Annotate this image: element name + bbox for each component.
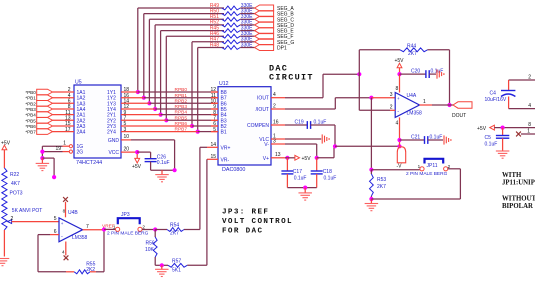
node *PB7 input tag: [25, 127, 74, 135]
capacitor C20 0.1uF: [400, 68, 444, 78]
svg-text:JP11:UNIPOLAR: JP11:UNIPOLAR: [502, 180, 535, 187]
svg-text:74HCT244: 74HCT244: [76, 160, 102, 166]
resistor R54 2K7: [167, 223, 184, 237]
svg-text:3: 3: [124, 127, 127, 133]
svg-text:*PB0: *PB0: [25, 90, 36, 95]
wire 1G 2G enable to ground: [40, 141, 69, 180]
wire pot wiper to U4B pin5: [11, 216, 60, 222]
svg-text:2: 2: [448, 164, 451, 169]
svg-text:330E: 330E: [241, 42, 253, 48]
svg-text:RPB1: RPB1: [175, 93, 188, 99]
svg-text:R56: R56: [146, 240, 155, 246]
wire RPB2 row: [121, 98, 218, 104]
svg-text:RPB4: RPB4: [175, 110, 188, 116]
svg-text:2: 2: [528, 74, 531, 80]
ground at C26: [155, 170, 169, 182]
svg-text:4: 4: [528, 103, 531, 109]
svg-text:1: 1: [63, 141, 66, 147]
svg-text:C5: C5: [485, 135, 492, 141]
ground at R53: [365, 199, 379, 211]
wire U4B feedback loop: [38, 235, 74, 272]
wire net RPB7 to R48: [196, 48, 224, 134]
svg-text:RPB5: RPB5: [175, 115, 188, 121]
svg-text:4K7: 4K7: [11, 181, 20, 187]
svg-text:+5V: +5V: [477, 126, 487, 132]
svg-text:1: 1: [418, 164, 421, 169]
svg-text:3: 3: [390, 92, 393, 98]
svg-text:VR+: VR+: [221, 145, 231, 151]
IC U12 DAC0800: [218, 81, 271, 173]
wire net RPB6 to R47: [190, 42, 224, 128]
wire net RPB3 to R52: [153, 25, 224, 111]
node SEG_F: [255, 33, 294, 40]
svg-text:LM358: LM358: [72, 235, 88, 241]
wire V+ net: [271, 152, 295, 160]
svg-text:WITHOUT JP: WITHOUT JP: [502, 196, 535, 203]
wire VREF to JP3 pin1: [104, 228, 116, 230]
U4B pin8 no-connect: [63, 197, 68, 217]
svg-text:+: +: [397, 96, 400, 101]
svg-text:VR-: VR-: [221, 157, 230, 163]
svg-text:JP3: REF: JP3: REF: [222, 209, 269, 217]
svg-text:1: 1: [527, 128, 530, 134]
U4B pin4 no-connect: [62, 242, 68, 261]
svg-text:DOUT: DOUT: [452, 113, 466, 119]
wire RPB1 row: [121, 93, 218, 99]
wire net RPB1 to R50: [142, 14, 224, 100]
svg-text:6: 6: [54, 229, 57, 235]
connector JP11 2 PIN MALE BERG: [406, 159, 451, 177]
wire U4B pin6 input: [38, 229, 59, 235]
ground at C17 C18: [298, 188, 312, 201]
ground at VLC: [322, 134, 329, 143]
resistor R48 330E: [210, 42, 255, 49]
svg-text:5K1: 5K1: [172, 267, 181, 273]
wire V- net: [271, 125, 402, 160]
node *PB0 input tag: [25, 87, 74, 95]
svg-text:R53: R53: [377, 177, 386, 183]
svg-text:R57: R57: [172, 258, 181, 264]
ground at U5 enables: [36, 158, 50, 171]
wire RPB4 row: [121, 110, 218, 116]
svg-text:8: 8: [528, 122, 531, 128]
svg-text:0.1uF: 0.1uF: [157, 160, 170, 166]
svg-text:RPB7: RPB7: [175, 127, 188, 133]
node SEG_B: [255, 11, 295, 18]
note WITH JP11 UNIPOLAR: [502, 172, 535, 210]
capacitor C17 0.1uF: [281, 158, 306, 188]
capacitor C19 0.1uF: [295, 119, 336, 128]
power +5V at U5 VCC: [132, 154, 142, 170]
svg-text:+5V: +5V: [302, 156, 312, 162]
node SEG_A: [255, 5, 295, 12]
U4A pin labels: [390, 86, 426, 126]
svg-text:4: 4: [396, 120, 399, 126]
svg-text:U4A: U4A: [407, 93, 417, 99]
ground at C5: [496, 151, 510, 158]
svg-text:RPB2: RPB2: [175, 98, 188, 104]
wire U4A pin2 input: [359, 109, 395, 111]
wire RPB5 row: [121, 115, 218, 121]
svg-text:2K7: 2K7: [377, 184, 386, 190]
wire RPB0 row: [121, 87, 218, 93]
svg-text:VOLT CONTROL: VOLT CONTROL: [222, 218, 293, 226]
wire VCC net U5: [121, 146, 151, 158]
capacitor C5 0.1uF: [485, 128, 510, 151]
capacitor C4 10uF/16V: [485, 80, 516, 109]
node *PB3 input tag: [25, 104, 74, 112]
svg-text:LM358: LM358: [407, 111, 423, 117]
svg-text:-: -: [61, 234, 63, 240]
svg-text:-: -: [397, 109, 399, 115]
wire VR- to R57: [187, 154, 218, 265]
svg-text:*PB3: *PB3: [25, 107, 36, 112]
svg-text:C21: C21: [411, 134, 420, 140]
node *PB4 input tag: [25, 110, 74, 118]
svg-text:DAC0800: DAC0800: [222, 167, 245, 173]
svg-text:V+: V+: [263, 156, 269, 162]
power +5V at U4A: [394, 58, 404, 74]
svg-text:RPB0: RPB0: [175, 87, 188, 93]
svg-text:13: 13: [275, 152, 281, 158]
svg-text:5K ANVI POT: 5K ANVI POT: [12, 208, 43, 214]
svg-text:2G: 2G: [77, 150, 84, 156]
wire U4A pin4 supply: [397, 117, 401, 146]
connector JP3 2 PIN MALE BERG: [107, 212, 149, 236]
svg-text:10uF/16V: 10uF/16V: [485, 97, 507, 103]
svg-text:CIRCUIT: CIRCUIT: [269, 73, 314, 83]
svg-text:*PB2: *PB2: [25, 101, 36, 106]
svg-text:+5V: +5V: [1, 140, 11, 146]
node SEG_C: [255, 16, 295, 23]
svg-text:15: 15: [210, 154, 216, 160]
svg-text:0.1uF: 0.1uF: [294, 176, 307, 182]
svg-text:0.1uF: 0.1uF: [485, 142, 498, 148]
wire U5 GND to ground: [121, 134, 177, 172]
svg-text:2: 2: [273, 103, 276, 109]
svg-text:4: 4: [62, 249, 65, 254]
svg-text:2Y4: 2Y4: [107, 130, 116, 136]
svg-text:DP1: DP1: [277, 46, 287, 52]
svg-text:20: 20: [124, 146, 130, 152]
svg-text:*PB7: *PB7: [25, 130, 36, 135]
wire VR+ to R54: [184, 142, 218, 230]
resistor R44 2K7: [359, 44, 449, 57]
node SEG_G: [255, 39, 295, 46]
resistor R53 2K7: [369, 170, 386, 201]
wire net RPB5 to R46: [164, 36, 224, 122]
svg-text:17: 17: [65, 127, 71, 133]
svg-text:0.1uF: 0.1uF: [324, 176, 337, 182]
svg-text:*PB1: *PB1: [25, 96, 36, 101]
wire RPB7 row: [121, 127, 218, 133]
svg-text:2K7: 2K7: [170, 231, 179, 237]
svg-text:FOR DAC: FOR DAC: [222, 227, 263, 235]
svg-text:JP3: JP3: [121, 212, 130, 218]
power +5V right: [477, 122, 535, 132]
resistor R51 330E: [210, 14, 255, 21]
svg-text:U5: U5: [75, 80, 82, 86]
title DAC CIRCUIT: [269, 64, 314, 83]
U12 input stubs: [211, 92, 218, 132]
wire C17 C18 ground rail: [287, 186, 316, 190]
wire pin3 to R53 junction: [369, 98, 373, 172]
svg-text:+: +: [61, 221, 64, 226]
svg-text:RPB6: RPB6: [175, 121, 188, 127]
svg-text:8: 8: [63, 209, 66, 214]
wire pot bottom to ground: [3, 230, 5, 257]
svg-text:V-: V-: [264, 142, 269, 148]
svg-text:*PB6: *PB6: [25, 124, 36, 129]
svg-text:2 PIN MALE BERG: 2 PIN MALE BERG: [107, 230, 149, 236]
svg-text:-V: -V: [397, 164, 403, 170]
power +5V at DAC V+: [295, 155, 311, 162]
op-amp U4A LM358: [395, 93, 422, 118]
svg-text:/IOUT: /IOUT: [256, 107, 269, 113]
capacitor C18 0.1uF: [311, 158, 337, 188]
svg-text:+5V: +5V: [132, 164, 142, 170]
svg-text:10: 10: [124, 134, 130, 140]
svg-text:4: 4: [273, 92, 276, 98]
svg-text:POT3: POT3: [10, 191, 23, 197]
svg-text:19: 19: [55, 146, 61, 152]
svg-text:B1: B1: [221, 130, 227, 136]
wire RPB6 row: [121, 121, 218, 127]
svg-text:8: 8: [396, 86, 399, 92]
IC U5 74HCT244: [69, 80, 121, 166]
svg-text:R54: R54: [170, 223, 179, 229]
svg-text:GND: GND: [108, 138, 120, 144]
resistor R47 330E: [210, 37, 255, 44]
svg-text:C17: C17: [293, 169, 302, 175]
svg-text:C4: C4: [490, 91, 497, 97]
svg-text:U4B: U4B: [68, 210, 78, 216]
wire net RPB2 to R51: [147, 19, 224, 105]
power +5V at pot: [1, 140, 11, 168]
ground at C20: [437, 70, 444, 79]
wire feedback vertical: [358, 50, 360, 111]
svg-text:*PB5: *PB5: [25, 118, 36, 123]
svg-text:U12: U12: [219, 81, 229, 87]
svg-text:2A4: 2A4: [77, 130, 86, 136]
svg-text:*PB4: *PB4: [25, 113, 36, 118]
node SEG_D: [255, 22, 295, 29]
svg-text:2: 2: [11, 216, 14, 222]
svg-text:5: 5: [54, 216, 57, 222]
svg-text:IOUT: IOUT: [257, 96, 269, 102]
wire to pin 4 right: [509, 103, 535, 109]
resistor R57 5K1: [168, 258, 187, 273]
svg-text:R22: R22: [10, 172, 19, 178]
wire VLC net: [271, 133, 321, 139]
wire IOUT net: [271, 72, 361, 98]
capacitor C26 0.1uF: [145, 155, 170, 171]
svg-text:14: 14: [210, 142, 216, 148]
svg-text:0.1uF: 0.1uF: [314, 119, 327, 125]
svg-text:RPB3: RPB3: [175, 104, 188, 110]
resistor R56 10K: [145, 230, 168, 268]
resistor R55 2K2: [74, 261, 95, 274]
svg-text:2 PIN MALE BERG: 2 PIN MALE BERG: [406, 171, 448, 177]
wire R55 to VREF node: [90, 229, 104, 271]
resistor R49 330E: [210, 3, 255, 10]
node *PB6 input tag: [25, 121, 74, 129]
note JP3 REF VOLT CONTROL: [222, 209, 293, 236]
wire net RPB4 to R45: [159, 31, 225, 117]
wire JP11 pin2 loop to ground: [371, 169, 460, 199]
svg-text:0.1uF: 0.1uF: [430, 134, 443, 140]
node *PB5 input tag: [25, 116, 74, 124]
svg-text:3: 3: [273, 138, 276, 144]
wire U4A output: [420, 104, 454, 106]
svg-text:R44: R44: [407, 44, 416, 50]
wire JP3 pin2 node: [142, 227, 167, 231]
node DOUT: [452, 102, 472, 119]
svg-text:7: 7: [86, 224, 89, 230]
svg-text:16: 16: [273, 119, 279, 125]
svg-text:C20: C20: [411, 68, 420, 74]
wire junction to JP11 pin1: [371, 169, 419, 171]
svg-text:1: 1: [113, 224, 116, 229]
resistor R50 330E: [210, 8, 255, 15]
potentiometer R22 POT3 4K7: [2, 168, 43, 230]
node *PB2 input tag: [25, 99, 74, 107]
ground at pot: [0, 259, 9, 266]
svg-text:2K7: 2K7: [408, 51, 417, 57]
ground at R56 R57: [155, 265, 169, 276]
svg-text:R48: R48: [210, 42, 219, 48]
svg-text:JP11: JP11: [427, 163, 438, 169]
svg-text:2: 2: [142, 224, 145, 229]
svg-text:COMPEN: COMPEN: [247, 123, 269, 129]
no-connect pin 1 right: [516, 128, 535, 136]
wire /IOUT net: [271, 96, 395, 110]
svg-text:VCC: VCC: [108, 150, 119, 156]
svg-text:1: 1: [423, 99, 426, 105]
op-amp U4B LM358: [59, 210, 88, 242]
svg-text:BIPOLAR OUT: BIPOLAR OUT: [502, 203, 535, 210]
power tag -V: [397, 147, 406, 170]
wire U4B output VREF: [83, 224, 115, 232]
wire RPB3 row: [121, 104, 218, 110]
wire R44 to output: [447, 50, 451, 107]
wire COMPEN net: [271, 119, 307, 125]
ground at C21: [444, 135, 451, 144]
resistor R45 330E: [210, 25, 255, 32]
node SEG_E: [255, 28, 295, 35]
node DP1: [255, 45, 287, 52]
capacitor C21 0.1uF: [400, 134, 444, 144]
node *PB1 input tag: [25, 93, 74, 101]
resistor R52 330E: [210, 20, 255, 27]
svg-text:WITH: WITH: [502, 172, 522, 179]
resistor R46 330E: [210, 31, 255, 38]
svg-text:10K: 10K: [145, 247, 155, 253]
svg-text:C18: C18: [323, 169, 332, 175]
svg-text:C19: C19: [295, 119, 304, 125]
wire to pin 2 top right: [509, 74, 535, 80]
wire U4A pin8 supply: [397, 72, 401, 93]
wire net RPB0 to R49: [136, 8, 224, 94]
